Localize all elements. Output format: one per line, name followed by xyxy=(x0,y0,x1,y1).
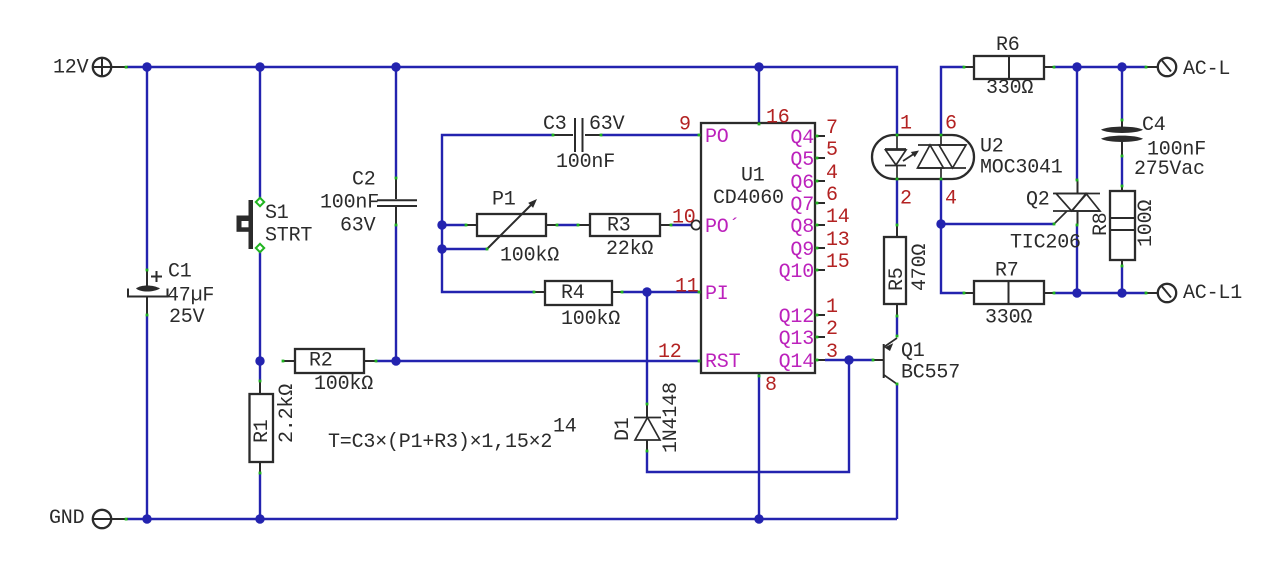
svg-text:Q12: Q12 xyxy=(779,306,814,329)
svg-text:Q10: Q10 xyxy=(779,261,814,284)
wire pin16 xyxy=(758,67,760,123)
junction R2 right / C2 xyxy=(391,356,400,365)
svg-text:T=C3×(P1+R3)×1,15×2: T=C3×(P1+R3)×1,15×2 xyxy=(328,431,552,454)
resistor R8 xyxy=(1090,187,1158,266)
junction Q14 / Q1 base xyxy=(844,355,853,364)
svg-text:TIC206: TIC206 xyxy=(1010,232,1081,255)
wire Q14 to Q1 base xyxy=(825,359,873,361)
svg-text:13: 13 xyxy=(826,229,850,252)
svg-text:Q1: Q1 xyxy=(901,340,925,363)
wire U2 pin4 xyxy=(940,179,942,224)
svg-text:12V: 12V xyxy=(53,57,89,80)
svg-text:25V: 25V xyxy=(169,306,205,329)
svg-text:BC557: BC557 xyxy=(901,362,960,385)
op-amp U1 CD4060 IC body xyxy=(701,123,815,373)
wire R4 right to pin11 xyxy=(622,291,701,293)
svg-text:2: 2 xyxy=(826,318,838,341)
svg-text:1: 1 xyxy=(826,296,838,319)
wire S1 bottom to R1 xyxy=(259,249,261,381)
junction wiper node xyxy=(437,244,446,253)
svg-text:AC-L: AC-L xyxy=(1183,58,1230,81)
wire C3 left / left vertical / R4 left xyxy=(442,135,553,292)
svg-text:Q9: Q9 xyxy=(790,239,814,262)
resistor R7 xyxy=(964,260,1054,330)
svg-text:4: 4 xyxy=(826,162,838,185)
svg-text:63V: 63V xyxy=(340,215,376,238)
svg-text:R6: R6 xyxy=(996,34,1020,57)
junction GND/pin8 xyxy=(754,514,763,523)
svg-text:11: 11 xyxy=(675,276,699,299)
svg-text:100kΩ: 100kΩ xyxy=(500,245,559,268)
wire C1 top xyxy=(146,67,148,270)
capacitor C1 xyxy=(128,261,214,330)
capacitor C2 xyxy=(320,169,417,238)
svg-text:Q5: Q5 xyxy=(790,149,814,172)
svg-text:CD4060: CD4060 xyxy=(713,187,784,210)
diode D1 xyxy=(612,382,683,453)
svg-text:PO´: PO´ xyxy=(705,216,740,239)
U1 right pin stubs xyxy=(815,136,825,360)
svg-text:Q4: Q4 xyxy=(790,127,814,150)
svg-text:Q6: Q6 xyxy=(790,172,814,195)
svg-text:R7: R7 xyxy=(995,260,1019,283)
wire R3 to pin10 bubble xyxy=(671,224,691,226)
svg-text:100Ω: 100Ω xyxy=(1135,200,1158,247)
formula text xyxy=(328,416,577,455)
wire C2 bottom xyxy=(395,225,397,361)
svg-text:R2: R2 xyxy=(309,350,333,373)
svg-text:2.2kΩ: 2.2kΩ xyxy=(276,384,299,443)
svg-text:GND: GND xyxy=(49,507,84,530)
wire C3 right to pin9 xyxy=(601,134,701,136)
capacitor C3 xyxy=(543,113,625,174)
junction Q2/AC-L1 xyxy=(1072,288,1081,297)
terminal AC-L xyxy=(1146,58,1230,81)
svg-text:100kΩ: 100kΩ xyxy=(561,308,620,331)
svg-text:330Ω: 330Ω xyxy=(986,77,1033,100)
junction pin4 node xyxy=(936,219,945,228)
svg-text:C4: C4 xyxy=(1142,114,1166,137)
svg-text:5: 5 xyxy=(826,139,838,162)
pushbutton S1 xyxy=(237,198,313,252)
svg-text:C3: C3 xyxy=(543,113,567,136)
svg-text:Q8: Q8 xyxy=(790,216,814,239)
junction R6/C4 xyxy=(1117,62,1126,71)
wire R5 to Q1 emitter xyxy=(896,316,898,336)
svg-text:Q14: Q14 xyxy=(779,351,814,374)
resistor R3 xyxy=(578,214,671,261)
svg-text:PO: PO xyxy=(705,126,729,149)
resistor R6 xyxy=(964,34,1054,100)
triac Q2 TIC206 xyxy=(1010,180,1100,255)
svg-text:U1: U1 xyxy=(741,165,765,188)
wire Q2 top xyxy=(1076,67,1078,180)
svg-text:3: 3 xyxy=(826,341,838,364)
svg-text:100nF: 100nF xyxy=(320,192,379,215)
wire C4 top xyxy=(1121,67,1123,120)
svg-text:C2: C2 xyxy=(352,169,376,192)
U1 right pin names xyxy=(779,127,814,374)
U1 left pin numbers xyxy=(658,107,790,398)
wire gate net xyxy=(941,223,1054,225)
wire pin4 node to R7 xyxy=(941,224,964,293)
svg-text:10: 10 xyxy=(672,207,696,230)
terminal GND xyxy=(49,507,128,530)
wire P1 left xyxy=(442,224,466,226)
svg-text:100nF: 100nF xyxy=(556,151,615,174)
svg-text:STRT: STRT xyxy=(265,225,312,248)
wire D1 anode to Q14 node xyxy=(647,360,849,472)
svg-text:100kΩ: 100kΩ xyxy=(314,373,373,396)
svg-text:AC-L1: AC-L1 xyxy=(1183,282,1242,305)
junction 12V/C2 xyxy=(391,62,400,71)
svg-text:4: 4 xyxy=(945,188,957,211)
wire U2 pin2 to R5 xyxy=(896,179,898,225)
junction 12V/C1 xyxy=(142,62,151,71)
wire P1 wiper xyxy=(442,248,487,250)
wire Q1 collector to GND xyxy=(896,384,898,519)
junction R8/AC-L1 xyxy=(1117,288,1126,297)
svg-text:63V: 63V xyxy=(589,113,625,136)
wire AC-L1 rail xyxy=(1054,292,1146,294)
svg-text:330Ω: 330Ω xyxy=(985,307,1032,330)
pin 10 bubble xyxy=(691,220,700,229)
U1 right pin numbers xyxy=(826,117,850,364)
svg-text:RST: RST xyxy=(705,351,741,374)
svg-text:R1: R1 xyxy=(251,419,274,443)
wire pin8 to GND xyxy=(758,373,760,519)
transistor Q1 BC557 xyxy=(873,336,960,385)
wire P1 to R3 xyxy=(557,224,578,226)
wire C1 bottom xyxy=(146,315,148,519)
wire node PI to D1 cathode xyxy=(646,292,648,404)
wire R6 to AC-L xyxy=(1054,66,1146,68)
svg-text:Q2: Q2 xyxy=(1026,189,1050,212)
svg-text:D1: D1 xyxy=(612,417,635,441)
svg-text:P1: P1 xyxy=(492,189,516,212)
U1 left pin names xyxy=(705,126,741,374)
svg-text:14: 14 xyxy=(553,416,577,439)
svg-text:470Ω: 470Ω xyxy=(909,244,932,291)
junction P1 left node xyxy=(437,220,446,229)
wire 12V rail to U2 pin1 xyxy=(127,67,897,134)
svg-text:Q7: Q7 xyxy=(790,194,814,217)
svg-text:R3: R3 xyxy=(607,215,631,238)
resistor R4 xyxy=(534,281,622,331)
svg-text:R8: R8 xyxy=(1090,212,1113,236)
junction GND/R1 xyxy=(255,514,264,523)
resistor R2 xyxy=(283,349,376,396)
wire R1 to GND xyxy=(259,473,261,519)
svg-text:U2: U2 xyxy=(980,136,1004,159)
resistor R5 xyxy=(884,225,932,316)
svg-text:C1: C1 xyxy=(168,261,192,284)
svg-text:15: 15 xyxy=(826,251,850,274)
wire S1 top xyxy=(259,67,261,201)
wire R8 bottom xyxy=(1121,266,1123,293)
wire C2 top xyxy=(395,67,397,178)
svg-text:1: 1 xyxy=(900,113,912,136)
junction 12V/S1 xyxy=(255,62,264,71)
wire Q2 bottom xyxy=(1076,225,1078,293)
svg-text:6: 6 xyxy=(945,113,957,136)
svg-text:14: 14 xyxy=(826,206,850,229)
pin connection marks xyxy=(125,66,1148,521)
svg-text:7: 7 xyxy=(826,117,838,140)
svg-text:2: 2 xyxy=(900,188,912,211)
wire U2 pin6 to R6 xyxy=(941,67,964,135)
svg-text:22kΩ: 22kΩ xyxy=(606,238,653,261)
junction 12V/pin16 xyxy=(754,62,763,71)
junction GND/C1 xyxy=(142,514,151,523)
svg-text:R5: R5 xyxy=(886,267,909,291)
svg-text:Q13: Q13 xyxy=(779,328,814,351)
svg-text:16: 16 xyxy=(766,107,790,130)
svg-text:6: 6 xyxy=(826,184,838,207)
svg-text:47µF: 47µF xyxy=(167,285,214,308)
optocoupler U2 MOC3041 xyxy=(872,135,1063,180)
svg-text:1N4148: 1N4148 xyxy=(660,382,683,453)
junction R4 right / D1 xyxy=(642,287,651,296)
svg-text:PI: PI xyxy=(705,283,729,306)
svg-text:9: 9 xyxy=(679,114,691,137)
wire RST net xyxy=(376,360,701,362)
terminal 12V xyxy=(53,57,128,80)
wire GND rail xyxy=(127,518,897,520)
svg-text:275Vac: 275Vac xyxy=(1134,158,1205,181)
terminal AC-L1 xyxy=(1146,282,1242,305)
svg-text:R4: R4 xyxy=(561,282,585,305)
potentiometer P1 xyxy=(466,189,559,268)
svg-text:12: 12 xyxy=(658,341,682,364)
wire C4 to R8 xyxy=(1121,156,1123,187)
svg-text:8: 8 xyxy=(765,374,777,397)
svg-text:S1: S1 xyxy=(265,202,289,225)
svg-text:MOC3041: MOC3041 xyxy=(980,157,1063,180)
junction R6/Q2 xyxy=(1072,62,1081,71)
capacitor C4 xyxy=(1101,114,1206,181)
resistor R1 xyxy=(250,381,300,473)
junction R2 left xyxy=(255,356,264,365)
U2 pin numbers xyxy=(900,113,957,211)
